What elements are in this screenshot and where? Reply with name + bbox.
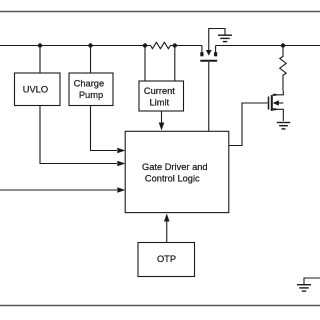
svg-text:OTP: OTP	[157, 254, 176, 264]
svg-text:Pump: Pump	[79, 90, 103, 100]
svg-text:Charge: Charge	[74, 78, 105, 88]
svg-text:UVLO: UVLO	[23, 84, 48, 94]
svg-text:Control Logic: Control Logic	[145, 174, 200, 184]
svg-text:Limit: Limit	[149, 98, 169, 108]
svg-text:Current: Current	[144, 86, 175, 96]
svg-text:Gate Driver and: Gate Driver and	[142, 162, 208, 172]
